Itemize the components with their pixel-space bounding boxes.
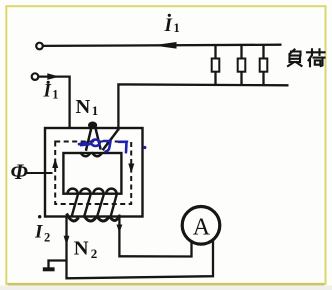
current arrow I1 top (pointing left) xyxy=(153,42,177,49)
label N2 xyxy=(74,238,98,262)
svg-text:I: I xyxy=(164,15,173,36)
winding N2 humps xyxy=(67,189,116,195)
label I1 top xyxy=(164,14,180,36)
current arrow I1 left (pointing right) xyxy=(47,73,59,80)
svg-text:1: 1 xyxy=(174,21,180,35)
svg-text:2: 2 xyxy=(91,246,98,261)
label load (fu he) xyxy=(288,49,325,66)
winding N2 strands xyxy=(72,195,117,218)
wire N1 right lead to load return xyxy=(118,84,288,130)
ammeter A xyxy=(182,207,220,245)
wire N2 right lead to ammeter xyxy=(119,215,191,257)
resistor load 2 xyxy=(238,45,246,85)
he xyxy=(307,49,325,66)
svg-text:I: I xyxy=(34,222,43,243)
wire from P2 to N1 left lead xyxy=(39,77,70,128)
ground symbol bar xyxy=(43,267,55,271)
winding N2 bottom loops xyxy=(67,214,120,222)
svg-text:1: 1 xyxy=(92,103,99,118)
core window rectangle xyxy=(63,153,121,194)
svg-text:1: 1 xyxy=(52,87,58,101)
svg-text:A: A xyxy=(193,214,211,240)
wire ground branch xyxy=(49,261,67,268)
svg-text:N: N xyxy=(76,96,91,118)
current arrow I2 on right lead (down) xyxy=(117,225,123,234)
wire top line to load xyxy=(43,45,281,46)
flux dashed path xyxy=(55,142,131,205)
watermark blue scribble xyxy=(79,140,146,153)
core outer rectangle xyxy=(45,128,143,217)
terminal P2 xyxy=(32,73,39,80)
svg-text:N: N xyxy=(74,238,89,260)
label N1 xyxy=(76,96,99,118)
wire N2 left lead to ground tee and bottom run xyxy=(67,217,214,279)
svg-text:2: 2 xyxy=(44,230,50,244)
label I2 xyxy=(34,215,50,244)
svg-text:I: I xyxy=(43,80,52,101)
svg-text:Φ: Φ xyxy=(11,159,28,184)
junction dot N1 hump xyxy=(88,122,97,129)
flux arrow right (down) xyxy=(128,164,134,174)
resistor load 1 xyxy=(212,45,220,85)
current arrow I2 on left lead (down) xyxy=(64,236,70,245)
label I1 left xyxy=(43,80,59,101)
flux arrow left (up) xyxy=(52,158,58,168)
terminal P1 xyxy=(36,43,43,50)
winding N1 turns xyxy=(80,129,118,157)
fu xyxy=(288,50,302,67)
resistor load 3 xyxy=(260,45,268,85)
flux pointer line xyxy=(27,172,53,174)
